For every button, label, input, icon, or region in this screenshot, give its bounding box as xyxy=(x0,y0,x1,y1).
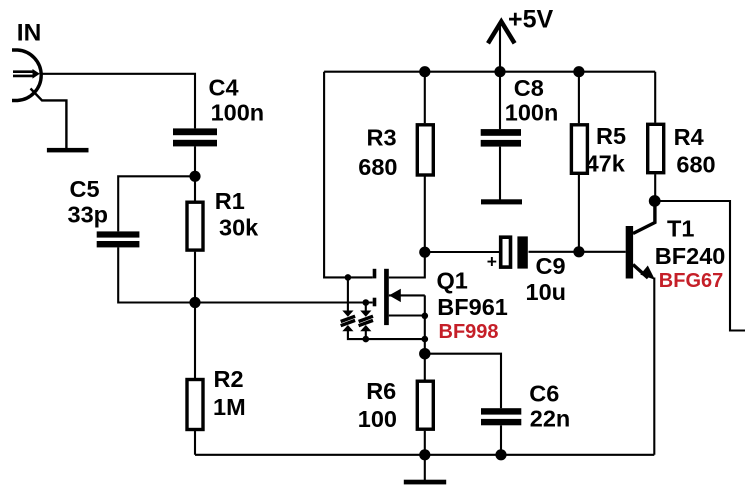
wire left diode branch top xyxy=(347,277,349,311)
node gate2/diode xyxy=(345,274,352,281)
node diode line join xyxy=(422,336,429,343)
svg-text:+: + xyxy=(487,252,497,272)
capacitor C4 xyxy=(173,128,217,146)
node A xyxy=(189,171,200,182)
wire left diode branch bottom xyxy=(348,331,425,340)
svg-text:R2: R2 xyxy=(214,366,244,392)
svg-text:100: 100 xyxy=(358,406,397,432)
svg-text:C8: C8 xyxy=(514,75,544,101)
resistor R1 xyxy=(187,176,203,302)
capacitor C5 xyxy=(97,231,140,247)
svg-text:IN: IN xyxy=(17,19,42,46)
capacitor C8 xyxy=(481,72,521,200)
svg-text:30k: 30k xyxy=(219,215,259,241)
node gate1/diode xyxy=(363,299,370,306)
resistor R6 xyxy=(417,354,433,455)
wire drain to C9 xyxy=(425,251,500,253)
wire gate2 bias branch xyxy=(324,72,373,278)
wire gate1 from node B xyxy=(195,301,373,303)
svg-text:R6: R6 xyxy=(366,378,396,404)
svg-text:680: 680 xyxy=(358,154,397,180)
wire C4 to node A xyxy=(194,146,196,176)
svg-text:R5: R5 xyxy=(596,123,626,149)
svg-text:Q1: Q1 xyxy=(437,268,468,294)
wire source to C6 xyxy=(425,354,501,409)
svg-text:C9: C9 xyxy=(536,253,566,279)
ground (C8) xyxy=(481,199,522,204)
svg-text:47k: 47k xyxy=(586,150,626,176)
wire right diode branch bottom xyxy=(365,331,367,340)
wire C6 to rail xyxy=(500,425,502,455)
svg-text:680: 680 xyxy=(676,152,715,178)
svg-text:R1: R1 xyxy=(215,188,245,214)
capacitor C6 xyxy=(481,408,521,425)
svg-text:R3: R3 xyxy=(367,124,397,150)
wire C5 to node B xyxy=(118,247,195,302)
power +5V arrow xyxy=(488,22,515,44)
svg-text:C6: C6 xyxy=(529,380,559,406)
diode D1 pair (gate2 protection) xyxy=(341,311,355,332)
wire C9 to base xyxy=(529,251,626,253)
node collector xyxy=(649,195,661,207)
node top rail R5 xyxy=(573,66,584,77)
svg-text:BF998: BF998 xyxy=(439,321,499,343)
resistor R2 xyxy=(187,303,203,455)
transistor Q1 dual-gate MOSFET xyxy=(373,252,425,354)
wire output xyxy=(655,201,745,331)
svg-text:100n: 100n xyxy=(211,100,265,126)
svg-text:22n: 22n xyxy=(530,406,571,432)
ground (bottom) xyxy=(404,480,446,485)
wire top rail xyxy=(324,71,655,73)
wire emitter down to rail xyxy=(653,278,655,455)
node bottom rail R6 xyxy=(419,449,430,460)
wire right diode branch top xyxy=(365,303,367,312)
node source xyxy=(419,348,430,359)
node base/R5 xyxy=(573,246,584,257)
wire IN to C4 xyxy=(40,74,195,129)
wire ground stub xyxy=(424,455,426,481)
svg-text:T1: T1 xyxy=(667,215,694,241)
ground (IN shield) xyxy=(47,148,89,153)
svg-text:BF961: BF961 xyxy=(437,294,508,320)
node diode return xyxy=(363,336,370,343)
node drain xyxy=(419,247,430,258)
wire bottom ground rail xyxy=(195,454,654,456)
svg-text:1M: 1M xyxy=(213,394,246,420)
connector IN xyxy=(12,50,66,149)
capacitor C9 electrolytic xyxy=(501,236,528,268)
svg-text:C4: C4 xyxy=(209,74,239,100)
svg-text:BFG67: BFG67 xyxy=(659,270,723,292)
diode D2 pair (gate1 protection) xyxy=(359,311,373,332)
svg-text:C5: C5 xyxy=(70,176,100,202)
node source/substrate xyxy=(422,313,429,320)
resistor R3 xyxy=(417,72,433,253)
node bottom rail C6 xyxy=(495,449,506,460)
node B xyxy=(189,297,200,308)
resistor R4 xyxy=(648,72,664,201)
node top rail C8 xyxy=(494,66,505,77)
svg-text:+5V: +5V xyxy=(508,6,554,34)
svg-text:100n: 100n xyxy=(505,99,559,125)
wire node A to C5 xyxy=(118,176,195,231)
svg-text:33p: 33p xyxy=(68,202,109,228)
node top rail R3 xyxy=(419,66,430,77)
svg-text:R4: R4 xyxy=(674,124,704,150)
svg-text:BF240: BF240 xyxy=(655,243,726,269)
transistor T1 xyxy=(626,201,655,280)
wire +5V to rail xyxy=(499,25,501,72)
resistor R5 xyxy=(571,72,587,252)
svg-text:10u: 10u xyxy=(526,279,567,305)
